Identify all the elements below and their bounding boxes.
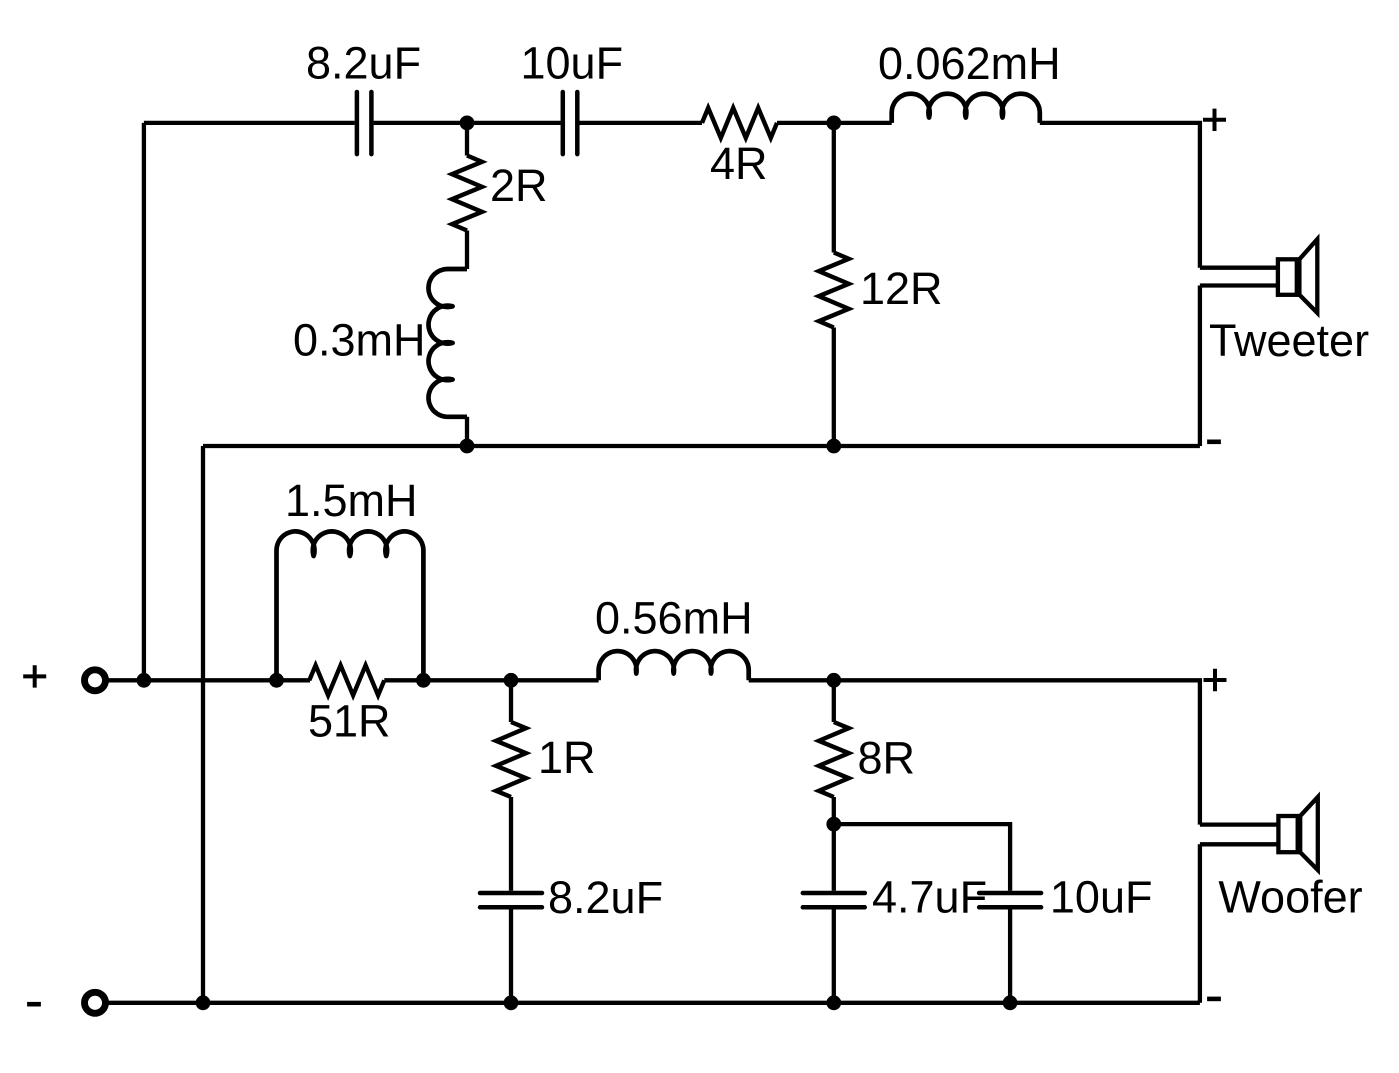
resistor R 8R <box>819 722 849 797</box>
wire: riser from + rail node to top rail corner <box>142 123 146 680</box>
wire: 12R branch upper stub <box>832 123 836 253</box>
polarity mark: - input <box>27 1002 41 1007</box>
svg-text:12R: 12R <box>860 263 943 314</box>
node: + rail / 1.5mH left junction <box>269 673 284 688</box>
woofer speaker driver box <box>1278 816 1297 852</box>
- input terminal post <box>85 992 106 1013</box>
svg-text:4R: 4R <box>710 138 768 189</box>
wire: top rail 10uF to 4R <box>580 121 703 125</box>
node: - rail / 4.7uF junction <box>826 995 841 1010</box>
wire: parallel node to 10uF drop <box>834 824 1010 891</box>
resistor R 12R <box>819 253 849 328</box>
wire: tweeter - drop and connector <box>1200 286 1278 447</box>
wire: 4.7uF to - rail stub <box>832 909 836 1003</box>
polarity mark: + woofer <box>1204 669 1227 691</box>
woofer speaker cone <box>1300 797 1318 870</box>
wire: + rail 0.56mH to woofer + corner and drop <box>749 680 1200 824</box>
node: + rail / tweeter feed junction <box>137 673 152 688</box>
capacitor C5 10uF (woofer shunt) <box>979 893 1041 907</box>
svg-text:8.2uF: 8.2uF <box>548 872 663 923</box>
polarity mark: - tweeter <box>1207 439 1221 444</box>
polarity mark: + input <box>23 665 46 687</box>
wire: 1R to 8.2uF stub <box>509 797 513 891</box>
svg-text:10uF: 10uF <box>521 37 624 88</box>
node: tweeter bottom rail / 0.3mH junction <box>460 439 475 454</box>
svg-text:1.5mH: 1.5mH <box>285 475 418 526</box>
wire: 8.2uF to - rail stub <box>509 909 513 1003</box>
wire: tweeter bottom rail <box>203 444 1200 448</box>
wire: 8R branch upper stub <box>832 680 836 722</box>
wire: 10uF to - rail stub <box>1008 909 1012 1003</box>
tweeter speaker cone <box>1299 239 1317 313</box>
wire: 1R branch upper stub <box>509 680 513 722</box>
svg-text:0.3mH: 0.3mH <box>293 315 426 366</box>
node: - rail / 8.2uF junction <box>504 995 519 1010</box>
svg-text:10uF: 10uF <box>1050 871 1153 922</box>
node: + rail / 1.5mH right junction <box>416 673 431 688</box>
wire: - bottom rail <box>108 1001 1200 1005</box>
polarity mark: - woofer <box>1207 997 1221 1002</box>
wire: tweeter + connector <box>1200 266 1278 270</box>
wire: 2R to 0.3mH stub <box>465 231 469 270</box>
wire: 2R branch upper stub <box>465 123 469 156</box>
inductor L 0.3mH <box>429 269 468 417</box>
capacitor C2 10uF (tweeter series) <box>563 92 578 154</box>
capacitor C1 8.2uF (tweeter series) <box>357 92 372 154</box>
resistor R 51R <box>309 665 384 695</box>
wire: + rail 51R to 0.56mH <box>384 678 598 682</box>
node: - rail / 10uF junction <box>1003 995 1018 1010</box>
node: top rail / 12R junction <box>826 116 841 131</box>
inductor L 1.5mH <box>277 531 424 680</box>
node: 8R / 4.7uF / 10uF parallel junction <box>826 817 841 832</box>
resistor R 1R <box>496 722 526 797</box>
wire: woofer + connector <box>1200 822 1279 826</box>
wire: top rail 0.062mH to tweeter + corner and drop <box>1040 123 1200 268</box>
wire: top rail 8.2uF to 10uF via 2R node <box>374 121 561 125</box>
inductor L 0.56mH <box>599 651 749 680</box>
wire: + input rail left segment <box>108 678 310 682</box>
capacitor C3 8.2uF (woofer shunt) <box>480 893 542 907</box>
wire: 12R branch lower stub <box>832 328 836 447</box>
node: + rail / 8R junction <box>826 673 841 688</box>
tweeter speaker driver box <box>1278 259 1297 295</box>
inductor L 0.062mH <box>892 94 1040 123</box>
wire: top rail corner to 8.2uF <box>144 121 355 125</box>
svg-text:Tweeter: Tweeter <box>1209 315 1369 366</box>
capacitor C4 4.7uF <box>803 893 865 907</box>
node: + rail / 1R junction <box>504 673 519 688</box>
svg-text:4.7uF: 4.7uF <box>872 872 987 923</box>
node: - rail / tweeter return junction <box>196 995 211 1010</box>
svg-text:Woofer: Woofer <box>1218 872 1362 923</box>
resistor R 4R <box>702 108 777 138</box>
svg-text:0.062mH: 0.062mH <box>878 38 1061 89</box>
node: tweeter bottom rail / 12R junction <box>826 439 841 454</box>
wire: woofer - drop and connector <box>1200 844 1279 1003</box>
wire: top rail 4R to 0.062mH via 12R node <box>777 121 892 125</box>
polarity mark: + tweeter <box>1203 109 1226 131</box>
svg-text:8R: 8R <box>858 732 916 783</box>
svg-text:8.2uF: 8.2uF <box>306 37 421 88</box>
wire: tweeter return riser to - rail <box>201 446 205 1003</box>
+ input terminal post <box>85 670 106 691</box>
svg-text:1R: 1R <box>538 732 596 783</box>
wire: 8R to 4.7uF stub through parallel node <box>832 797 836 891</box>
node: top rail / 2R junction <box>460 116 475 131</box>
svg-text:0.56mH: 0.56mH <box>595 593 753 644</box>
wire: 0.3mH lower stub <box>465 417 469 446</box>
resistor R 2R <box>452 156 482 231</box>
svg-text:51R: 51R <box>308 696 391 747</box>
svg-text:2R: 2R <box>490 160 548 211</box>
